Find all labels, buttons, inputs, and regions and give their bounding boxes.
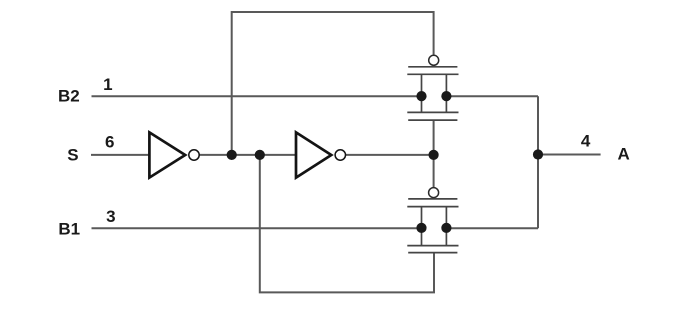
svg-text:B2: B2 [58, 86, 80, 105]
svg-text:B1: B1 [58, 219, 80, 238]
svg-text:1: 1 [103, 75, 112, 94]
svg-text:4: 4 [581, 132, 591, 151]
svg-text:6: 6 [105, 132, 114, 151]
svg-text:A: A [618, 145, 630, 164]
svg-text:S: S [67, 145, 78, 164]
svg-text:3: 3 [106, 207, 115, 226]
